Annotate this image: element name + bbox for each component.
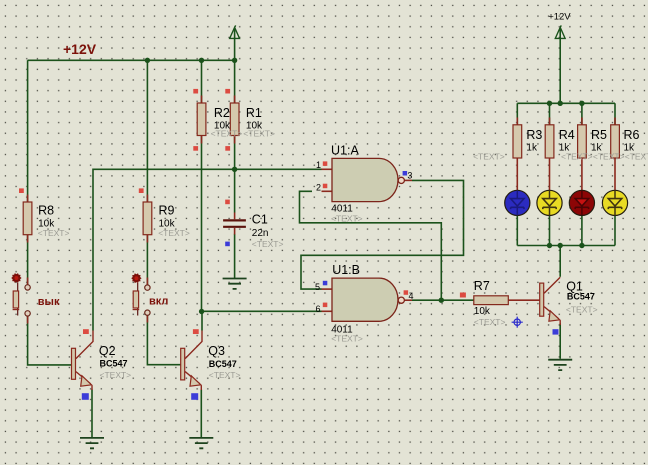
wire U1:A pin2 feedback loop bbox=[300, 191, 442, 300]
svg-text:R4: R4 bbox=[559, 128, 575, 142]
node bus-R4 top junction bbox=[547, 101, 552, 106]
resistor R1 10k bbox=[230, 103, 239, 136]
wire R2 bottom to node Q3C bbox=[201, 136, 203, 312]
wire button SW2 to Q3 base bbox=[147, 315, 180, 364]
origin marker near R7 bbox=[512, 317, 523, 328]
pin R6 to LED D4 lead bbox=[614, 158, 616, 190]
wire R9 bottom to button SW2 bbox=[146, 235, 148, 285]
wire +12V rail bbox=[28, 59, 235, 61]
svg-text:R6: R6 bbox=[624, 128, 640, 142]
pin R5 top lead bbox=[581, 118, 583, 125]
node marker R9 top bbox=[139, 188, 144, 193]
node A junction R1/C1/pin1 bbox=[232, 167, 237, 172]
resistor R7 10k bbox=[474, 296, 509, 305]
svg-text:R9: R9 bbox=[159, 203, 175, 217]
pin U1:B pin6 stub bbox=[322, 310, 333, 312]
svg-text:<TEXT>: <TEXT> bbox=[38, 228, 70, 238]
pin U1:A pin2 stub bbox=[322, 190, 333, 192]
svg-text:<TEXT>: <TEXT> bbox=[473, 152, 505, 162]
node marker R7 left bbox=[460, 293, 466, 298]
svg-text:<TEXT>: <TEXT> bbox=[211, 129, 243, 139]
transistor Q2 BC547 bbox=[72, 331, 94, 391]
node rail-R2 junction bbox=[199, 58, 204, 63]
button SW2 (вкл) bbox=[131, 273, 150, 315]
op-amp U1:B (NAND gate 4011) bbox=[332, 278, 404, 321]
svg-text:<TEXT>: <TEXT> bbox=[100, 370, 132, 380]
svg-text:BC547: BC547 bbox=[567, 292, 595, 302]
wire Q1 emitter to ground bbox=[559, 323, 561, 358]
svg-text:U1:A: U1:A bbox=[331, 144, 359, 158]
svg-text:R7: R7 bbox=[474, 279, 490, 293]
pin U1:B pin5 stub bbox=[322, 288, 333, 290]
svg-text:1k: 1k bbox=[526, 143, 538, 154]
svg-text:2: 2 bbox=[316, 182, 321, 192]
LED D4 yellow bbox=[602, 190, 627, 215]
transistor Q3 BC547 bbox=[181, 331, 202, 391]
node marker Q2 emitter bbox=[82, 393, 89, 400]
node bus-arrow junction bbox=[558, 101, 563, 106]
svg-text:<TEXT>: <TEXT> bbox=[209, 370, 241, 380]
node marker U1:B out4 bbox=[404, 290, 409, 295]
node bus-R5 bottom junction bbox=[579, 243, 584, 248]
wire Q2 collector to U1:A pin1 bbox=[93, 169, 322, 330]
button SW1 (вык) bbox=[11, 273, 30, 316]
wire C1 bottom to ground bbox=[234, 234, 236, 278]
pin R1 leads bbox=[234, 96, 236, 144]
node bus-Q1 junction bbox=[558, 243, 563, 248]
svg-text:1: 1 bbox=[316, 160, 321, 170]
pin U1:B out4 stub bbox=[404, 299, 412, 301]
wire arrow to R1 top bbox=[234, 29, 236, 104]
wire R7 to Q1 base bbox=[508, 299, 539, 301]
node marker Q1 emitter bbox=[553, 329, 559, 334]
resistor R3 1k bbox=[513, 125, 522, 158]
pin R8 leads bbox=[27, 195, 29, 243]
wire R1 bottom to node A bbox=[234, 136, 236, 170]
node marker R1 bottom bbox=[225, 146, 230, 151]
wire power arrow to LED bus bbox=[559, 29, 561, 104]
pin R3 to LED D1 lead bbox=[516, 158, 518, 190]
resistor R2 10k bbox=[197, 103, 206, 136]
svg-text:3: 3 bbox=[407, 171, 412, 181]
wire U1:B out4 to R7 bbox=[412, 299, 474, 301]
svg-text:<TEXT>: <TEXT> bbox=[252, 239, 284, 249]
wire LED top bus bbox=[517, 102, 615, 104]
svg-text:BC547: BC547 bbox=[100, 358, 128, 368]
GROUNDS bbox=[80, 279, 572, 449]
pin R5 to LED D3 lead bbox=[581, 158, 583, 190]
node rail-R9 junction bbox=[145, 58, 150, 63]
svg-text:<TEXT>: <TEXT> bbox=[561, 152, 593, 162]
node marker C1 top bbox=[225, 200, 230, 205]
pin R2 leads bbox=[201, 96, 203, 144]
svg-text:Q3: Q3 bbox=[208, 344, 225, 358]
svg-text:4: 4 bbox=[409, 291, 414, 301]
svg-text:10k: 10k bbox=[474, 306, 491, 317]
pin button SW2 leads bbox=[146, 278, 148, 323]
svg-text:<TEXT>: <TEXT> bbox=[625, 152, 648, 162]
LED D2 yellow bbox=[537, 190, 562, 215]
wire rail to R8 top bbox=[27, 60, 29, 202]
svg-text:<TEXT>: <TEXT> bbox=[158, 228, 190, 238]
node rail-R1 junction bbox=[232, 58, 237, 63]
svg-text:BC547: BC547 bbox=[209, 359, 237, 369]
node marker R1 top bbox=[225, 89, 230, 94]
MARKERS bbox=[19, 89, 466, 334]
pin R9 leads bbox=[146, 195, 148, 243]
wire Q2 emitter to ground bbox=[91, 390, 93, 438]
RESISTORS bbox=[23, 103, 619, 305]
svg-text:вкл: вкл bbox=[149, 295, 168, 307]
ground under Q2 bbox=[80, 438, 104, 448]
resistor R6 1k bbox=[611, 125, 620, 158]
svg-text:R2: R2 bbox=[214, 106, 230, 120]
svg-text:вык: вык bbox=[38, 296, 60, 308]
wire R4 leads bbox=[549, 103, 551, 245]
node bus-R5 top junction bbox=[579, 101, 584, 106]
wire button SW1 to Q2 base bbox=[28, 316, 72, 365]
wire rail to R2 top bbox=[201, 60, 203, 103]
power terminal +12V left bbox=[230, 25, 240, 38]
node bus-R4 bottom junction bbox=[547, 243, 552, 248]
node marker Q3 collector bbox=[193, 329, 199, 334]
node marker Q2 collector bbox=[83, 329, 89, 334]
svg-text:<TEXT>: <TEXT> bbox=[331, 333, 363, 343]
svg-text:<TEXT>: <TEXT> bbox=[566, 305, 598, 315]
node marker U1:A pin2 bbox=[323, 184, 328, 189]
wire LED bottom bus bbox=[517, 245, 615, 247]
resistor R8 10k bbox=[23, 202, 32, 235]
wire U1:A out3 to U1:B pin5 bbox=[301, 180, 464, 289]
op-amp U1:A (NAND gate 4011) bbox=[332, 158, 404, 201]
wire R5 leads bbox=[581, 103, 583, 245]
svg-text:5: 5 bbox=[315, 282, 320, 292]
svg-text:U1:B: U1:B bbox=[332, 263, 360, 277]
capacitor C1 22n bbox=[223, 213, 246, 235]
wire rail to R9 top bbox=[146, 60, 148, 202]
svg-text:Q2: Q2 bbox=[99, 344, 116, 358]
transistor Q1 BC547 bbox=[540, 277, 561, 325]
svg-text:R3: R3 bbox=[526, 128, 542, 142]
ground under Q3 bbox=[189, 438, 213, 448]
node marker U1:B pin6 bbox=[323, 303, 328, 308]
power terminal +12V right bbox=[555, 25, 565, 38]
svg-text:R5: R5 bbox=[591, 128, 607, 142]
node marker R2 top bbox=[193, 89, 198, 94]
node marker R2 bottom bbox=[193, 146, 198, 151]
wire R3 leads bbox=[516, 103, 518, 245]
resistor R4 1k bbox=[545, 125, 554, 158]
svg-text:<TEXT>: <TEXT> bbox=[331, 214, 363, 224]
svg-text:+12V: +12V bbox=[63, 41, 97, 57]
wire Q3 emitter to ground bbox=[200, 390, 202, 438]
ground under Q1 bbox=[548, 360, 572, 370]
svg-text:22n: 22n bbox=[252, 228, 269, 239]
svg-text:<TEXT>: <TEXT> bbox=[474, 317, 506, 327]
node marker U1:A pin1 bbox=[323, 161, 328, 166]
svg-text:<TEXT>: <TEXT> bbox=[593, 152, 625, 162]
pin U1:A pin1 stub bbox=[322, 168, 333, 170]
node marker R8 top bbox=[19, 188, 24, 193]
pin button SW1 leads bbox=[27, 278, 29, 324]
svg-text:R1: R1 bbox=[246, 106, 262, 120]
wire R8 bottom to button SW1 bbox=[27, 235, 29, 285]
node marker U1:A out3 bbox=[403, 171, 408, 176]
wire LED bus to Q1 collector bbox=[559, 246, 561, 277]
wire R6 leads bbox=[614, 103, 616, 245]
pin R4 top lead bbox=[549, 118, 551, 125]
wire node Q3C to U1:B pin6 bbox=[202, 310, 322, 312]
svg-text:R8: R8 bbox=[38, 203, 54, 217]
svg-text:+12V: +12V bbox=[548, 12, 571, 23]
node Q3C junction R2/Q3/pin6 bbox=[199, 309, 204, 314]
ground under C1 bbox=[223, 279, 247, 289]
wire node A to C1 top bbox=[234, 169, 236, 212]
node B-out junction bbox=[439, 298, 444, 303]
LED D1 blue bbox=[505, 190, 530, 215]
node marker Q3 emitter bbox=[191, 393, 198, 400]
pin R3 top lead bbox=[516, 118, 518, 125]
node marker U1:B pin5 bbox=[323, 281, 328, 286]
wire Q3 collector up to node Q3C bbox=[201, 312, 203, 331]
PIN STUBS (dark red) bbox=[28, 96, 615, 324]
pin R6 top lead bbox=[614, 118, 616, 125]
pin R4 to LED D2 lead bbox=[549, 158, 551, 190]
pin U1:A out3 stub bbox=[404, 179, 412, 181]
node marker C1 bottom bbox=[225, 242, 230, 247]
svg-text:C1: C1 bbox=[252, 213, 268, 227]
svg-text:<TEXT>: <TEXT> bbox=[243, 129, 275, 139]
svg-text:6: 6 bbox=[316, 304, 321, 314]
LED D3 red bbox=[569, 190, 594, 215]
resistor R5 1k bbox=[578, 125, 587, 158]
resistor R9 10k bbox=[143, 202, 152, 235]
